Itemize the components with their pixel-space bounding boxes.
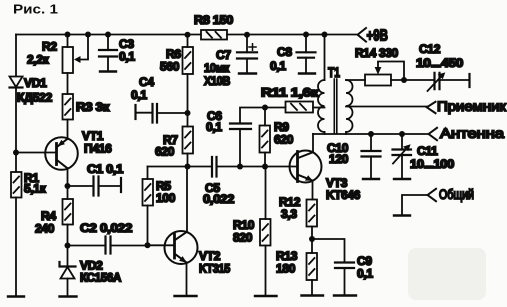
node rail-R8-C7 — [244, 32, 250, 38]
wire R14 wiper — [378, 62, 404, 81]
svg-text:C11: C11 — [417, 144, 438, 158]
power +9V chevron — [358, 28, 366, 42]
node rail-C3 — [105, 32, 111, 38]
svg-text:Х10В: Х10В — [204, 74, 231, 88]
wire R4 to node — [67, 225, 69, 246]
resistor R14 (trimmer) — [346, 79, 365, 81]
svg-text:0,1: 0,1 — [131, 88, 147, 102]
wire VT1 collector — [67, 168, 69, 186]
svg-text:240: 240 — [35, 222, 55, 236]
wire R2 wiper — [81, 35, 89, 60]
svg-text:КС156А: КС156А — [80, 271, 122, 285]
wire R6-R7 — [187, 74, 189, 127]
transistor VT1 — [45, 137, 78, 170]
svg-text:C1 0,1: C1 0,1 — [87, 162, 124, 176]
svg-text:Общий: Общий — [439, 187, 474, 202]
wire T1 primary bottom — [324, 132, 326, 134]
node rail-R2-wiper — [85, 32, 91, 38]
resistor R4 — [67, 186, 69, 199]
resistor R5 — [147, 167, 149, 180]
svg-text:620: 620 — [274, 133, 294, 147]
wire left drop — [15, 35, 17, 77]
node R6-R7-C4 — [185, 110, 191, 116]
capacitor C4 — [134, 105, 136, 119]
resistor R6 — [187, 35, 189, 47]
svg-text:R14 330: R14 330 — [355, 46, 399, 60]
ground C8 — [299, 72, 315, 74]
node rail-T1 — [322, 32, 328, 38]
svg-text:100: 100 — [156, 191, 176, 205]
svg-text:10...100: 10...100 — [410, 157, 455, 171]
node C2-R5-VT2 base — [145, 242, 151, 248]
resistor R9 — [264, 108, 266, 126]
resistor R7 — [183, 127, 194, 154]
resistor R1 — [11, 172, 22, 198]
wire R2-R3 — [67, 73, 69, 94]
zener VD2 — [67, 246, 69, 267]
svg-text:820: 820 — [233, 231, 253, 245]
svg-text:2,2к: 2,2к — [27, 53, 50, 67]
resistor R8 — [201, 30, 227, 40]
wire T1 secondary bottom — [345, 132, 347, 134]
ground R13 — [302, 294, 324, 296]
wire VD1 to base node — [15, 88, 17, 173]
connector Приемник — [427, 102, 436, 113]
node rail-R2 — [65, 32, 71, 38]
wire top rail left segment — [16, 34, 201, 36]
wire R1 to ground — [15, 198, 17, 297]
T1 primary drop — [324, 35, 326, 81]
ground VD2 — [60, 295, 77, 297]
wire top rail right segment — [227, 34, 358, 36]
ground C7 — [239, 72, 256, 74]
wire R3 to VT1 emitter — [67, 120, 69, 139]
node R7-VT2 collector — [185, 164, 191, 170]
node rail-C8 — [303, 32, 309, 38]
node VT1 collector — [65, 183, 71, 189]
capacitor C10 — [370, 134, 372, 151]
ground C10 — [363, 178, 379, 180]
wire VT1 base — [16, 152, 57, 154]
connector Антенна — [429, 128, 437, 140]
T1 core — [334, 79, 337, 133]
svg-text:+9В: +9В — [367, 28, 389, 45]
diode VD1 — [10, 77, 23, 88]
capacitor C12 (variable) — [435, 73, 440, 89]
node R12-R13-C9 — [309, 236, 315, 242]
svg-text:R11 1,6к: R11 1,6к — [261, 86, 320, 100]
resistor R12 — [307, 200, 318, 227]
svg-text:0,1: 0,1 — [357, 267, 373, 281]
resistor R10 — [265, 167, 267, 220]
svg-text:560: 560 — [160, 60, 180, 74]
resistor R13 — [307, 253, 318, 280]
wire VT3 collector — [312, 134, 314, 152]
svg-text:10мк: 10мк — [204, 61, 230, 75]
svg-text:120: 120 — [329, 152, 349, 166]
svg-text:0,1: 0,1 — [206, 120, 222, 134]
ground left branch — [8, 295, 24, 297]
capacitor C11 (variable) — [401, 134, 403, 150]
svg-text:620: 620 — [155, 145, 175, 159]
ground C11 — [394, 178, 410, 180]
svg-text:C2 0,022: C2 0,022 — [80, 221, 133, 235]
capacitor C7 — [246, 35, 248, 53]
svg-text:R8 150: R8 150 — [194, 13, 234, 27]
ground C3 — [100, 70, 116, 72]
ground R10 — [255, 295, 277, 297]
connector Общий — [428, 189, 436, 201]
wire receiver tap — [346, 106, 427, 108]
svg-text:C12: C12 — [419, 42, 441, 56]
svg-text:KT315: KT315 — [199, 262, 231, 276]
wire VT2 emitter — [186, 263, 188, 297]
resistor R3 — [63, 94, 74, 120]
svg-text:R2: R2 — [42, 40, 57, 54]
svg-text:Антенна: Антенна — [440, 126, 505, 141]
svg-text:C7: C7 — [216, 48, 231, 62]
svg-text:3,3: 3,3 — [281, 207, 297, 221]
svg-text:5,1к: 5,1к — [24, 182, 47, 196]
ground C9 — [334, 294, 356, 296]
node R14-C12 — [401, 77, 407, 83]
signal line base VT3 — [148, 166, 213, 168]
svg-text:0,022: 0,022 — [203, 192, 235, 206]
resistor R11 — [265, 107, 286, 109]
svg-text:Рис. 1: Рис. 1 — [13, 2, 58, 17]
svg-text:КД522: КД522 — [17, 91, 53, 105]
T1 secondary winding — [346, 80, 353, 132]
capacitor C1 — [68, 185, 94, 187]
svg-text:П416: П416 — [84, 142, 112, 156]
svg-text:T1: T1 — [328, 64, 340, 80]
svg-text:C8: C8 — [277, 45, 292, 59]
svg-text:0,1: 0,1 — [119, 50, 135, 64]
wire R7 to line — [187, 154, 189, 167]
capacitor C2 — [68, 245, 106, 247]
node C11 — [399, 131, 405, 137]
svg-text:R3 3к: R3 3к — [76, 100, 110, 114]
node C10 — [368, 131, 374, 137]
transistor VT2 — [148, 244, 175, 246]
wire collector line / antenna line — [313, 133, 429, 135]
svg-text:0,1: 0,1 — [270, 59, 286, 73]
svg-text:Приемник: Приемник — [437, 99, 506, 114]
svg-text:KT646: KT646 — [326, 188, 361, 202]
svg-text:10...450: 10...450 — [416, 56, 464, 70]
capacitor C9 — [312, 239, 345, 263]
node C6-R9-R11 — [262, 105, 268, 111]
capacitor C3 — [107, 35, 109, 51]
resistor R2 (trimmer) — [67, 35, 69, 48]
capacitor C8 — [305, 35, 307, 53]
wire VT3 emitter — [312, 181, 314, 200]
node R9-R10 — [262, 164, 268, 170]
transistor VT3 — [290, 151, 322, 183]
node rail-R6-R8 — [185, 32, 191, 38]
svg-text:VD1: VD1 — [24, 76, 47, 90]
node C6 bottom — [237, 164, 243, 170]
T1 primary winding — [318, 80, 324, 132]
wire VT2 collector — [186, 167, 188, 232]
capacitor C6 — [240, 108, 265, 124]
svg-text:C4: C4 — [139, 75, 154, 89]
ground VT2 — [175, 295, 197, 297]
node VT1 base — [13, 150, 19, 156]
svg-text:180: 180 — [276, 262, 296, 276]
node R4-C2-VD2 — [65, 243, 71, 249]
ground Общий — [394, 214, 410, 216]
capacitor C5 — [212, 157, 217, 177]
